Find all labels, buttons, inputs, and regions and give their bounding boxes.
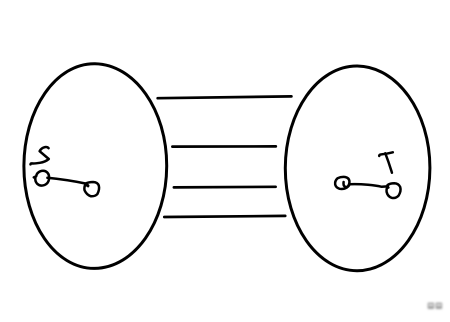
wire connecting line 1 <box>158 96 292 98</box>
watermark 洛谷 (bottom right) <box>428 303 443 309</box>
ellipse set T (right oval) <box>285 66 430 271</box>
wire connecting line 3 <box>174 185 276 188</box>
node C (left blob in T) <box>335 177 349 189</box>
edge A-B (left ellipse) <box>47 178 88 186</box>
wire connecting line 4 <box>164 216 285 217</box>
ellipse set S (left oval) <box>24 64 167 269</box>
label S <box>31 147 49 164</box>
edge C-D (right ellipse) <box>343 182 387 187</box>
label T <box>379 152 393 172</box>
node A (left blob in S) <box>34 171 49 186</box>
node D (right blob in T) <box>387 183 401 198</box>
wire connecting line 2 <box>172 145 275 148</box>
node B (right blob in S) <box>84 182 99 196</box>
